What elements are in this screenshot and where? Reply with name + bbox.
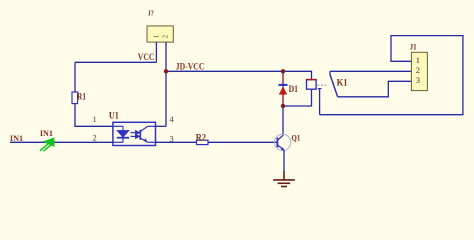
transistor Q1 circle: [274, 134, 290, 150]
wire IN1 input to U1 pin2: [10, 141, 113, 143]
svg-text:2: 2: [93, 132, 97, 142]
diode D1 triangle: [279, 87, 287, 95]
U1 internal LED: [113, 126, 129, 142]
relay K1 coil polarity mark (red top edge): [306, 79, 316, 81]
svg-text:R1: R1: [77, 91, 86, 101]
wire coil bottom to junction: [283, 89, 312, 106]
wire D1 branch vertical (JD-VCC to Q1 collector): [282, 71, 284, 135]
wire left riser to R1: [74, 62, 76, 92]
port IN1 green arrow: [40, 138, 54, 151]
resistor R1: [72, 92, 78, 104]
wire U1 pin3 to R2: [156, 141, 197, 143]
svg-text:2: 2: [162, 34, 170, 38]
svg-text:J?: J?: [148, 8, 154, 17]
wire relay common to J1 pin2: [330, 70, 411, 72]
svg-text:D1: D1: [289, 84, 299, 94]
relay K1 actuation dashed link: [318, 84, 329, 86]
svg-text:VCC: VCC: [138, 53, 155, 63]
wire U1 pin4 stub: [156, 125, 167, 127]
relay K1 armature pivot stub: [329, 71, 331, 74]
ground symbol: [273, 171, 295, 187]
svg-text:U1: U1: [109, 111, 119, 121]
wire J7 pin2 riser down to U1 pin4: [165, 42, 167, 126]
relay K1 fixed contact: [318, 88, 322, 90]
U1 coupling arrows: [131, 131, 140, 139]
svg-text:IN1: IN1: [40, 128, 53, 138]
transistor Q1 base bar: [276, 138, 278, 148]
svg-text:1: 1: [152, 34, 160, 38]
svg-text:IN1: IN1: [10, 133, 23, 143]
svg-text:2: 2: [416, 65, 420, 75]
svg-text:JD-VCC: JD-VCC: [176, 63, 205, 73]
transistor Q1 collector: [278, 135, 284, 140]
svg-text:K1: K1: [337, 77, 348, 87]
wire Q1 emitter to ground: [283, 150, 285, 172]
relay K1 coil body: [307, 80, 317, 90]
wire VCC rail: [75, 61, 156, 63]
svg-text:3: 3: [416, 75, 420, 85]
svg-text:J1: J1: [410, 43, 417, 52]
junction dot at J7/U1 riser and JD-VCC rail: [164, 69, 168, 73]
svg-text:1: 1: [416, 55, 420, 65]
U1 internal phototransistor: [140, 126, 155, 142]
wire J1 pin1 loop (around connector): [320, 36, 463, 115]
connector J1 body: [411, 52, 427, 90]
connector J7 body: [147, 26, 173, 42]
svg-text:Q1: Q1: [292, 134, 301, 143]
junction dot at D1 top: [281, 69, 285, 73]
svg-text:4: 4: [170, 114, 175, 124]
diode D1 leads (red): [282, 74, 284, 85]
relay K1 armature: [330, 75, 338, 97]
junction dot at D1 bottom / coil return: [281, 104, 285, 108]
diode D1 cathode bar: [279, 84, 288, 86]
wire R2 to Q1 base: [208, 141, 277, 143]
svg-text:1: 1: [93, 114, 97, 124]
resistor R2: [197, 140, 209, 144]
svg-text:R2: R2: [196, 132, 207, 142]
transistor Q1 emitter with arrow: [277, 145, 284, 150]
wire armature to J1 pin3: [338, 81, 412, 97]
wire J7 pin1 stub: [155, 42, 157, 62]
wire JD-VCC rail: [166, 71, 312, 79]
optocoupler U1 body: [113, 122, 156, 145]
wire R1 bottom to U1 pin1: [75, 104, 113, 127]
